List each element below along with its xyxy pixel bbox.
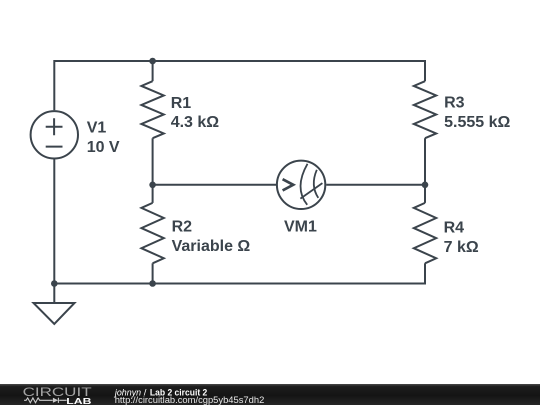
wire left column bottom <box>53 159 55 283</box>
VM1 needle <box>300 183 322 199</box>
node dot R2 bottom <box>149 280 156 287</box>
svg-text:7 kΩ: 7 kΩ <box>444 239 479 256</box>
svg-text:R2: R2 <box>172 219 193 236</box>
logo waveform <box>24 398 67 403</box>
footer bar <box>0 384 540 405</box>
resistor R3 <box>414 81 436 138</box>
wire R2 bottom <box>152 263 154 283</box>
logo diode <box>53 398 58 403</box>
svg-text:5.555 kΩ: 5.555 kΩ <box>444 114 510 131</box>
svg-text:V1: V1 <box>87 120 107 137</box>
resistor R4 <box>414 203 436 263</box>
svg-text:http://circuitlab.com/cgp5yb45: http://circuitlab.com/cgp5yb45s7dh2 <box>115 395 265 405</box>
svg-text:LAB: LAB <box>66 396 91 405</box>
voltage source V1 <box>31 111 78 158</box>
resistor R1 <box>141 81 163 138</box>
wire middle left <box>153 138 276 185</box>
wire R1 top <box>152 61 154 81</box>
VM1 pointer chevron <box>283 179 294 190</box>
ground <box>34 284 75 325</box>
node dot R1 top <box>149 58 156 65</box>
voltmeter VM1 <box>277 161 325 209</box>
VM1 meter arc 2 <box>314 170 319 198</box>
resistor R2 <box>141 203 163 263</box>
svg-text:R1: R1 <box>171 95 192 112</box>
svg-text:Variable Ω: Variable Ω <box>172 238 251 255</box>
wire middle right <box>326 184 425 186</box>
wire right mid <box>424 138 426 203</box>
node dot R1/R2 mid <box>149 182 156 189</box>
svg-text:4.3 kΩ: 4.3 kΩ <box>171 114 220 131</box>
VM1 meter arc 1 <box>301 164 308 205</box>
svg-text:R3: R3 <box>444 95 465 112</box>
V1 plus sign <box>46 118 63 135</box>
svg-text:10 V: 10 V <box>87 139 120 156</box>
V1 minus sign <box>46 146 63 148</box>
wire top rail <box>54 61 425 110</box>
node dot ground <box>51 280 58 287</box>
node dot right mid <box>422 182 429 189</box>
svg-text:VM1: VM1 <box>284 219 317 236</box>
wire R2 top <box>152 185 154 203</box>
svg-text:R4: R4 <box>444 220 465 237</box>
wire bottom rail <box>54 263 425 283</box>
